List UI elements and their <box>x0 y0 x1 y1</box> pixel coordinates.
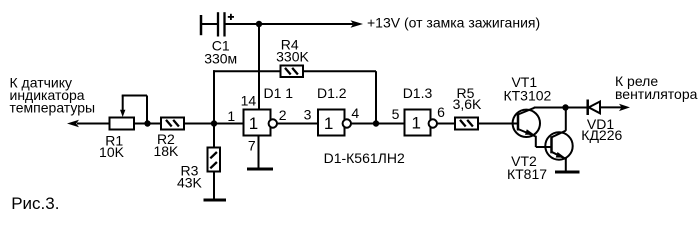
svg-text:D1 1: D1 1 <box>264 85 294 101</box>
wire left arrow <box>67 120 110 127</box>
svg-text:D1-К561ЛН2: D1-К561ЛН2 <box>324 150 405 166</box>
wire feedback top right <box>303 70 376 72</box>
wire feedback top left <box>213 70 281 72</box>
wire D1.1 out to D1.2 in <box>277 123 318 125</box>
wire pin7 <box>258 136 260 168</box>
node collector junction <box>562 104 568 110</box>
resistor R4 330K <box>276 37 309 78</box>
wire to relay arrow <box>600 73 698 111</box>
svg-text:5: 5 <box>392 106 400 122</box>
inverter gate D1.1 <box>227 85 293 154</box>
wire D1.3 out to R5 <box>437 123 455 125</box>
svg-text:КД226: КД226 <box>581 127 622 143</box>
wire +13V arrow <box>351 15 541 31</box>
transistor VT1 KT3102 <box>503 74 551 147</box>
svg-text:3: 3 <box>304 107 312 123</box>
node R1 wiper junction <box>144 120 150 126</box>
svg-text:6: 6 <box>437 104 445 120</box>
svg-text:18K: 18K <box>153 143 179 159</box>
svg-text:D1.2: D1.2 <box>317 85 347 101</box>
wire D1.2 out to D1.3 in <box>351 123 405 125</box>
wire Vcc to pin14 <box>258 24 260 110</box>
wire top rail <box>226 23 354 25</box>
resistor R3 43K <box>177 124 220 200</box>
svg-text:14: 14 <box>241 93 257 109</box>
svg-text:вентилятора: вентилятора <box>615 86 698 102</box>
svg-text:КТ817: КТ817 <box>507 166 547 182</box>
ground VT2 emitter <box>555 171 580 174</box>
svg-text:+13V (от замка зажигания): +13V (от замка зажигания) <box>367 15 540 31</box>
svg-text:4: 4 <box>351 105 359 121</box>
resistor R1 10K potentiometer <box>99 96 147 161</box>
svg-text:Рис.3.: Рис.3. <box>11 194 59 212</box>
node top junction <box>256 21 262 27</box>
svg-text:2: 2 <box>279 107 287 123</box>
ground R3 <box>204 199 227 202</box>
left lead-out text <box>10 75 96 116</box>
inverter gate D1.3 <box>403 85 445 136</box>
svg-text:10K: 10K <box>99 144 125 160</box>
wire R5 to VT1 base <box>478 123 518 125</box>
node A junction R2/R3/R4/pin1 <box>211 120 217 126</box>
wire collector rail <box>534 107 587 109</box>
svg-text:D1.3: D1.3 <box>403 85 433 101</box>
wire feedback right vertical <box>375 71 377 123</box>
wire feedback left vertical <box>213 70 215 123</box>
wire R2 to D1.1 input <box>184 123 244 125</box>
svg-text:1: 1 <box>227 108 235 124</box>
wire R1-R2 <box>134 123 161 125</box>
svg-text:3,6K: 3,6K <box>453 96 482 112</box>
capacitor C1 <box>201 12 237 66</box>
svg-text:330м: 330м <box>204 50 237 66</box>
node feedback junction <box>373 120 379 126</box>
resistor R5 3,6K <box>453 85 482 130</box>
ground pin7 <box>247 168 273 171</box>
transistor VT2 KT817 <box>507 108 573 182</box>
resistor R2 18K <box>153 118 184 160</box>
svg-text:1: 1 <box>324 114 333 133</box>
svg-text:7: 7 <box>248 138 256 154</box>
diode VD1 KD226 <box>581 100 622 144</box>
svg-text:температуры: температуры <box>10 100 96 116</box>
svg-text:330K: 330K <box>276 49 309 65</box>
svg-text:1: 1 <box>411 114 420 133</box>
svg-text:КТ3102: КТ3102 <box>503 88 551 104</box>
inverter gate D1.2 <box>317 85 359 136</box>
svg-text:1: 1 <box>249 114 258 133</box>
svg-text:43K: 43K <box>177 175 203 191</box>
